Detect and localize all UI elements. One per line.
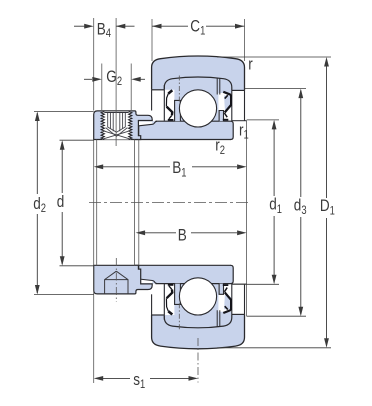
grub screw centerline top [115, 18, 117, 146]
right seal [224, 96, 231, 112]
screw socket lines [108, 113, 126, 131]
extension line collar left face lower [93, 140, 95, 384]
d1 shelf line [232, 120, 247, 122]
seal outboard face lines [163, 85, 165, 121]
eccentric slit (white gap between collar and inner ring) [139, 122, 153, 126]
hat arc (outer ring bore band) [164, 77, 232, 90]
extension line collar chamfer [96, 140, 98, 266]
seal groove centerline [178, 76, 180, 104]
screw top edge [104, 111, 128, 113]
bearing axis centerline [89, 201, 251, 203]
svg-text:r1: r1 [239, 121, 249, 142]
extension line outer ring left face [151, 19, 153, 61]
extension line thread left [101, 64, 103, 111]
svg-text:B4: B4 [97, 20, 111, 40]
inner ring band [135, 121, 234, 139]
thread zigzag right [129, 111, 132, 139]
white pocket right seal [218, 93, 231, 121]
thread zigzag left [101, 111, 104, 139]
bearing center plane line [197, 338, 199, 383]
svg-text:C1: C1 [190, 17, 205, 38]
grub screw centerline bottom [115, 258, 117, 302]
extension line inner ring left face [138, 140, 140, 266]
extension line thread right [130, 64, 132, 111]
white pocket left seal [165, 90, 174, 121]
lubrication groove twin lines [217, 78, 220, 95]
svg-text:d3: d3 [294, 196, 307, 217]
outer ring side faces below crown [151, 90, 153, 111]
bottom half mirrored [135, 265, 247, 349]
svg-text:d2: d2 [33, 195, 46, 216]
svg-text:r: r [248, 55, 253, 74]
svg-text:G2: G2 [106, 68, 122, 89]
left seal [168, 90, 172, 93]
svg-text:d1: d1 [269, 195, 282, 216]
svg-text:B: B [178, 226, 187, 245]
extension line inner ring right face [246, 121, 248, 317]
inner ring shoulders [175, 100, 181, 121]
svg-text:d: d [57, 193, 65, 212]
threaded hole white interior [102, 111, 131, 139]
socket cone chevrons [107, 127, 125, 132]
drill point cross [102, 131, 130, 140]
screw house [105, 271, 128, 294]
crown bottom edges [152, 89, 165, 91]
outer ring crown [152, 56, 245, 121]
ball [179, 90, 216, 127]
extension line inner ring recess [134, 140, 136, 266]
extension line collar left face upper [93, 18, 95, 111]
svg-text:B1: B1 [172, 159, 186, 180]
svg-text:s1: s1 [133, 371, 145, 392]
extension line outer ring right face [244, 19, 246, 61]
svg-text:D1: D1 [320, 197, 335, 218]
